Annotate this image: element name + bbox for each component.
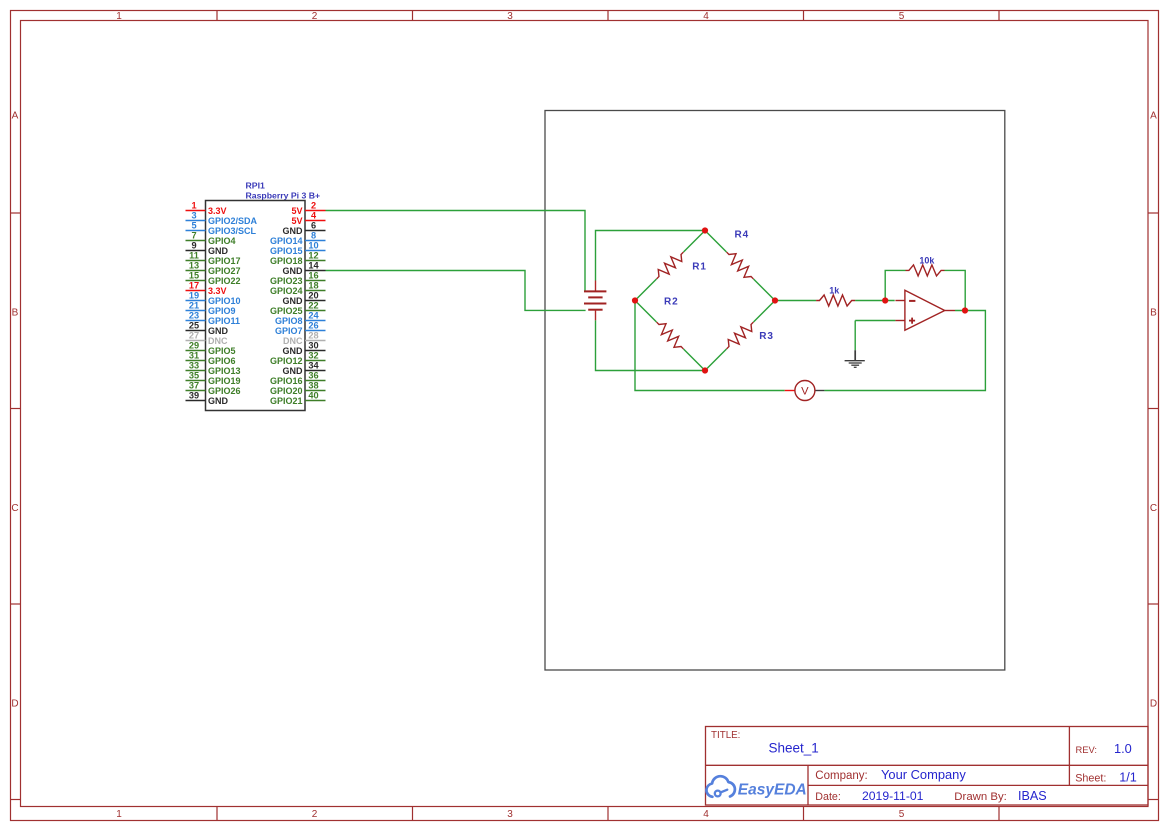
pin 5 GPIO3/SCL: [186, 221, 257, 236]
junction node op-amp inverting input: [882, 297, 888, 303]
pin 18 GPIO24: [270, 281, 326, 296]
svg-text:Sheet_1: Sheet_1: [769, 741, 819, 756]
wire bridge side R4 top-right: [705, 231, 727, 253]
svg-text:15: 15: [189, 271, 199, 281]
svg-text:23: 23: [189, 311, 199, 321]
svg-text:R2: R2: [664, 296, 679, 307]
pin 34 GND: [283, 361, 326, 376]
svg-text:4: 4: [703, 809, 709, 820]
pin 23 GPIO11: [186, 311, 241, 326]
svg-text:Raspberry Pi 3 B+: Raspberry Pi 3 B+: [246, 190, 321, 200]
svg-text:40: 40: [308, 391, 318, 401]
resistor R4: [723, 248, 758, 283]
EasyEDA logo: [706, 776, 806, 798]
svg-text:2019-11-01: 2019-11-01: [862, 789, 924, 803]
svg-text:36: 36: [308, 371, 318, 381]
svg-text:B: B: [1150, 307, 1157, 318]
svg-text:GPIO21: GPIO21: [270, 396, 303, 406]
svg-text:30: 30: [308, 341, 318, 351]
pin 40 GPIO21: [270, 391, 326, 406]
pin 7 GPIO4: [186, 231, 236, 246]
svg-text:3.3V: 3.3V: [208, 286, 227, 296]
svg-text:Company:: Company:: [815, 770, 867, 782]
pin 17 3.3V: [186, 281, 227, 296]
svg-text:B: B: [12, 307, 19, 318]
svg-text:5V: 5V: [291, 206, 302, 216]
svg-text:8: 8: [311, 231, 316, 241]
svg-text:GND: GND: [208, 326, 229, 336]
svg-text:5: 5: [899, 11, 905, 22]
svg-text:D: D: [11, 699, 18, 710]
junction node bridge right: [772, 297, 778, 303]
pin 22 GPIO25: [270, 301, 326, 316]
svg-text:38: 38: [308, 381, 318, 391]
svg-text:3: 3: [507, 11, 513, 22]
svg-text:11: 11: [189, 251, 199, 261]
svg-text:25: 25: [189, 321, 199, 331]
svg-text:GPIO14: GPIO14: [270, 236, 303, 246]
svg-text:GPIO17: GPIO17: [208, 256, 241, 266]
svg-text:5: 5: [899, 809, 905, 820]
svg-text:GPIO16: GPIO16: [270, 376, 303, 386]
svg-text:9: 9: [191, 241, 196, 251]
svg-text:GPIO5: GPIO5: [208, 346, 236, 356]
svg-text:Your Company: Your Company: [881, 767, 966, 782]
svg-text:14: 14: [308, 261, 319, 271]
body RPI1: [206, 201, 306, 411]
svg-text:GND: GND: [283, 346, 304, 356]
svg-text:GND: GND: [283, 296, 304, 306]
svg-text:GPIO19: GPIO19: [208, 376, 241, 386]
svg-text:1: 1: [116, 809, 122, 820]
pin 30 GND: [283, 341, 326, 356]
svg-text:4: 4: [311, 211, 317, 221]
pin 35 GPIO19: [186, 371, 241, 386]
pin 12 GPIO18: [270, 251, 326, 266]
pin 32 GPIO12: [270, 351, 326, 366]
connector RPI1 Raspberry Pi 3 B+: [186, 181, 326, 411]
pin 8 GPIO14: [270, 231, 326, 246]
svg-text:5: 5: [191, 221, 196, 231]
pin 31 GPIO6: [186, 351, 236, 366]
bounding box (sub-circuit frame): [545, 111, 1005, 671]
junction node bridge left: [632, 297, 638, 303]
pin 14 GND: [283, 261, 326, 276]
svg-text:GPIO9: GPIO9: [208, 306, 236, 316]
wire 5V: RPI pin 2 to battery +: [326, 211, 586, 292]
svg-text:29: 29: [189, 341, 199, 351]
svg-text:3: 3: [191, 211, 196, 221]
svg-text:20: 20: [308, 291, 318, 301]
pin 24 GPIO8: [275, 311, 326, 326]
svg-text:22: 22: [308, 301, 318, 311]
svg-text:3.3V: 3.3V: [208, 206, 227, 216]
svg-text:1: 1: [116, 11, 122, 22]
svg-text:GPIO2/SDA: GPIO2/SDA: [208, 216, 258, 226]
pin 26 GPIO7: [275, 321, 326, 336]
svg-text:A: A: [12, 111, 19, 122]
svg-text:GPIO4: GPIO4: [208, 236, 236, 246]
svg-text:7: 7: [191, 231, 196, 241]
pin 2 5V: [291, 201, 325, 216]
wire bridge side R1 top-left: [635, 279, 657, 301]
svg-text:GPIO15: GPIO15: [270, 246, 303, 256]
svg-text:DNC: DNC: [283, 336, 303, 346]
resistor R3: [723, 318, 758, 353]
svg-text:2: 2: [312, 11, 318, 22]
svg-text:3: 3: [507, 809, 513, 820]
svg-text:35: 35: [189, 371, 199, 381]
junction node bridge bottom: [702, 367, 708, 373]
svg-text:GPIO18: GPIO18: [270, 256, 303, 266]
svg-text:GPIO12: GPIO12: [270, 356, 303, 366]
pin 29 GPIO5: [186, 341, 236, 356]
svg-text:2: 2: [312, 809, 318, 820]
svg-text:Sheet:: Sheet:: [1075, 773, 1106, 785]
resistor 10k: [906, 265, 945, 276]
svg-text:1: 1: [191, 201, 196, 211]
pin 4 5V: [291, 211, 325, 226]
svg-text:C: C: [11, 503, 18, 514]
svg-text:GND: GND: [283, 266, 304, 276]
wire resistor 1k to op-amp inverting node: [855, 300, 895, 302]
svg-text:21: 21: [189, 301, 199, 311]
svg-text:REV:: REV:: [1076, 744, 1098, 755]
svg-text:DNC: DNC: [208, 336, 228, 346]
svg-text:R4: R4: [735, 229, 750, 240]
svg-text:GPIO23: GPIO23: [270, 276, 303, 286]
voltmeter: [785, 381, 825, 401]
wire op-amp non-inverting input: [855, 320, 895, 322]
svg-text:GND: GND: [208, 396, 229, 406]
svg-text:A: A: [1150, 111, 1157, 122]
battery: [584, 281, 606, 321]
svg-text:32: 32: [308, 351, 318, 361]
pin 37 GPIO26: [186, 381, 241, 396]
ground: [845, 350, 865, 367]
wire feedback: node up and to resistor 10k: [885, 270, 905, 300]
svg-text:GND: GND: [208, 246, 229, 256]
wire bridge side R2 bottom-left: [635, 301, 657, 323]
wire battery + to bridge top node: [596, 231, 706, 281]
svg-text:1k: 1k: [829, 285, 840, 295]
svg-text:GPIO11: GPIO11: [208, 316, 240, 326]
svg-text:GPIO7: GPIO7: [275, 326, 303, 336]
svg-text:33: 33: [189, 361, 199, 371]
pin 9 GND: [186, 241, 229, 256]
svg-text:12: 12: [308, 251, 318, 261]
svg-text:RPI1: RPI1: [246, 181, 265, 191]
pin 39 GND: [186, 391, 229, 406]
wire GND: RPI pin 14 toward battery -: [326, 271, 586, 311]
junction node bridge top: [702, 227, 708, 233]
pin 1 3.3V: [186, 201, 227, 216]
svg-text:C: C: [1150, 503, 1157, 514]
svg-text:6: 6: [311, 221, 316, 231]
svg-text:13: 13: [189, 261, 199, 271]
svg-text:GPIO13: GPIO13: [208, 366, 241, 376]
svg-text:28: 28: [308, 331, 318, 341]
svg-text:GPIO22: GPIO22: [208, 276, 241, 286]
title block: [706, 727, 1149, 806]
svg-text:18: 18: [308, 281, 318, 291]
svg-text:GPIO6: GPIO6: [208, 356, 236, 366]
svg-text:2: 2: [311, 201, 316, 211]
svg-text:10k: 10k: [919, 255, 935, 265]
wire bridge left node down to voltmeter +: [635, 301, 785, 391]
svg-text:V: V: [801, 386, 809, 398]
svg-text:R3: R3: [759, 331, 774, 342]
svg-text:GPIO8: GPIO8: [275, 316, 303, 326]
svg-text:27: 27: [189, 331, 199, 341]
pin 38 GPIO20: [270, 381, 326, 396]
svg-text:GPIO20: GPIO20: [270, 386, 303, 396]
svg-text:37: 37: [189, 381, 199, 391]
wire battery - to bridge bottom node: [596, 320, 706, 370]
pin 11 GPIO17: [186, 251, 241, 266]
wire non-inverting input to ground: [854, 321, 856, 351]
pin 13 GPIO27: [186, 261, 241, 276]
svg-text:GND: GND: [283, 366, 304, 376]
svg-text:D: D: [1150, 699, 1157, 710]
wire bridge side R3 bottom-right: [705, 349, 727, 371]
svg-text:19: 19: [189, 291, 199, 301]
svg-text:TITLE:: TITLE:: [711, 730, 740, 741]
svg-text:GPIO25: GPIO25: [270, 306, 303, 316]
svg-text:16: 16: [308, 271, 318, 281]
pin 19 GPIO10: [186, 291, 241, 306]
wire op-amp output to voltmeter -: [824, 311, 985, 391]
pin 36 GPIO16: [270, 371, 326, 386]
pin 15 GPIO22: [186, 271, 241, 286]
pin 20 GND: [283, 291, 326, 306]
pin 6 GND: [283, 221, 326, 236]
svg-text:GPIO24: GPIO24: [270, 286, 303, 296]
pin 25 GND: [186, 321, 229, 336]
svg-text:34: 34: [308, 361, 319, 371]
pin 27 DNC: [186, 331, 228, 346]
svg-text:1.0: 1.0: [1114, 741, 1132, 756]
pin 28 DNC: [283, 331, 326, 346]
svg-text:17: 17: [189, 281, 199, 291]
pin 10 GPIO15: [270, 241, 326, 256]
svg-text:R1: R1: [692, 261, 707, 272]
pin 33 GPIO13: [186, 361, 241, 376]
svg-text:GPIO27: GPIO27: [208, 266, 241, 276]
pin 21 GPIO9: [186, 301, 236, 316]
svg-text:Drawn By:: Drawn By:: [954, 791, 1007, 803]
svg-text:31: 31: [189, 351, 199, 361]
junction node op-amp output: [962, 307, 968, 313]
svg-text:IBAS: IBAS: [1018, 789, 1047, 803]
svg-text:GPIO10: GPIO10: [208, 296, 241, 306]
wire bridge right node to resistor 1k: [775, 300, 816, 302]
svg-text:Date:: Date:: [815, 791, 841, 803]
svg-text:GND: GND: [283, 226, 304, 236]
op-amp: [895, 290, 955, 330]
svg-text:1/1: 1/1: [1119, 770, 1137, 784]
svg-text:39: 39: [189, 391, 199, 401]
svg-text:24: 24: [308, 311, 319, 321]
svg-text:5V: 5V: [291, 216, 302, 226]
svg-text:10: 10: [308, 241, 318, 251]
resistor R1: [653, 248, 688, 283]
resistor 1k: [816, 295, 855, 306]
pin 3 GPIO2/SDA: [186, 211, 258, 226]
svg-text:GPIO26: GPIO26: [208, 386, 241, 396]
svg-text:26: 26: [308, 321, 318, 331]
svg-text:EasyEDA: EasyEDA: [738, 782, 807, 799]
svg-text:4: 4: [703, 11, 709, 22]
wire resistor 10k to op-amp output node: [945, 270, 966, 310]
svg-text:GPIO3/SCL: GPIO3/SCL: [208, 226, 257, 236]
resistor R2: [653, 318, 688, 353]
pin 16 GPIO23: [270, 271, 326, 286]
